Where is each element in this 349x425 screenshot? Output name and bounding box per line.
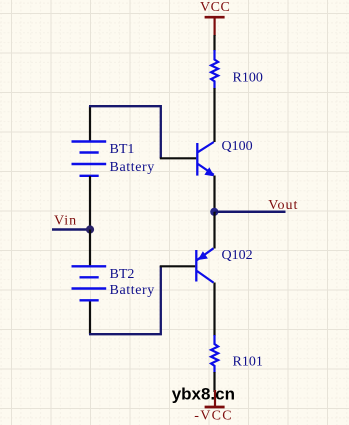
power symbol VCC [200, 0, 230, 36]
svg-text:Q100: Q100 [222, 139, 253, 154]
wire Vin node to BT2 top [89, 230, 91, 267]
pin BT1 top [89, 106, 91, 141]
resistor R100 [211, 50, 263, 89]
svg-text:BT2: BT2 [110, 267, 135, 282]
wire BT2 bottom to Q102 base [89, 266, 161, 334]
svg-text:VCC: VCC [200, 0, 230, 15]
node Vin [52, 213, 94, 233]
svg-text:Q102: Q102 [222, 248, 253, 263]
transistor Q100 [197, 139, 252, 177]
battery BT2 [72, 266, 155, 300]
wire Q100 emitter to output node [213, 176, 215, 213]
svg-text:-VCC: -VCC [194, 409, 233, 424]
wire R101 to -VCC [213, 372, 215, 392]
svg-text:R101: R101 [233, 355, 263, 370]
wire VCC to R100 [213, 35, 215, 51]
battery BT1 [72, 142, 155, 176]
svg-text:Vout: Vout [268, 198, 298, 213]
wire BT1 bottom to Vin node [89, 176, 91, 230]
svg-text:Vin: Vin [54, 213, 77, 228]
svg-text:R100: R100 [233, 71, 263, 86]
resistor R101 [211, 335, 263, 373]
wire output node to Q102 emitter [213, 212, 215, 249]
svg-text:ybx8.cn: ybx8.cn [172, 385, 235, 404]
svg-text:Battery: Battery [110, 283, 155, 298]
svg-text:Battery: Battery [110, 160, 155, 175]
transistor Q102 [196, 248, 252, 283]
wire into Q102 base [160, 265, 196, 267]
wire BT1 top to Q100 base [89, 106, 161, 158]
svg-text:BT1: BT1 [110, 142, 135, 157]
wire R100 to Q100 collector [213, 88, 215, 142]
power symbol -VCC [194, 390, 233, 424]
wire Q102 collector to R101 [213, 283, 215, 337]
wire into Q100 base [160, 157, 197, 159]
pin BT2 bottom [89, 301, 91, 335]
node Vout [210, 198, 298, 216]
